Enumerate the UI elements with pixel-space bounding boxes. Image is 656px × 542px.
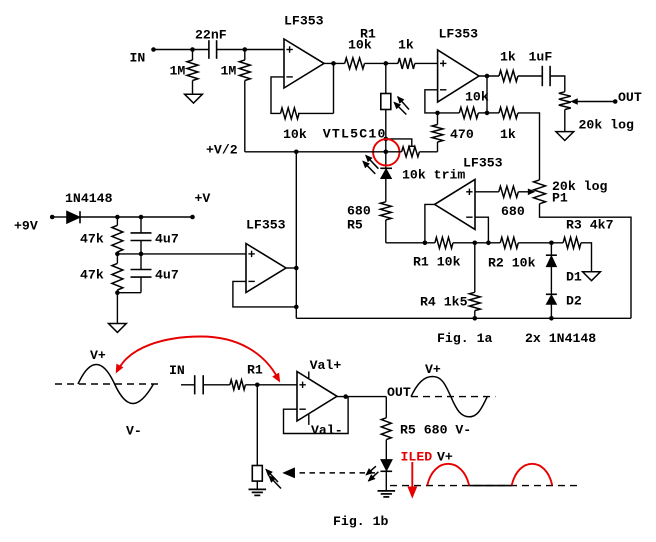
photoresistor VTL5C10 LDR box	[381, 94, 391, 110]
svg-text:P1: P1	[552, 191, 568, 206]
wire U5 feedback	[284, 397, 349, 434]
resistor 10k U2 feedback	[459, 107, 478, 118]
op-amp U5 (fig1b)	[297, 372, 337, 422]
node +9V terminal	[50, 215, 55, 220]
output sine waveform	[411, 377, 487, 417]
wire IN stub to cap	[181, 384, 195, 386]
potentiometer P1 20k log	[534, 180, 546, 204]
svg-text:R4 1k5: R4 1k5	[420, 295, 468, 310]
red ILED arrow	[411, 462, 413, 488]
wire R5 to LED	[385, 440, 387, 460]
wire U2 -in feedback leg	[425, 90, 438, 113]
wire bottom rail	[296, 317, 631, 319]
wire LED to R5	[385, 179, 387, 202]
junction U3 out on chain	[423, 241, 428, 246]
pot wiper arrow to OUT	[578, 101, 616, 103]
svg-text:R1: R1	[247, 363, 263, 378]
wire R3 to ground	[581, 243, 592, 272]
svg-text:R5 680 V-: R5 680 V-	[400, 423, 471, 438]
resistor R4 1k5	[474, 243, 476, 292]
junction U2 fb/1k-2 node	[485, 111, 490, 116]
op-amp U3 LF353 (left-facing)	[435, 179, 475, 229]
svg-text:R1 10k: R1 10k	[413, 255, 461, 270]
wire LDR to LED	[385, 110, 387, 169]
LDR light arrow 1 (fig1b)	[266, 469, 278, 482]
resistor R5 680	[380, 202, 391, 220]
supply pin tick Val+	[308, 372, 310, 379]
svg-text:1k: 1k	[500, 127, 516, 142]
op-amp U2 LF353	[438, 50, 479, 102]
junction D1 tap	[549, 241, 554, 246]
junction +V/2 to buffer	[294, 150, 299, 155]
svg-text:47k: 47k	[80, 232, 104, 247]
svg-text:Fig. 1a: Fig. 1a	[437, 331, 492, 346]
wire node A down to LDR	[385, 63, 387, 93]
supply pin tick Val-	[308, 415, 310, 425]
ground under LDR (bars)	[249, 488, 267, 490]
wire U1 feedback bottom	[298, 112, 334, 114]
ILED baseline (dashed)	[390, 485, 579, 487]
red highlight circle	[373, 139, 399, 165]
diode D2	[546, 293, 557, 295]
node OUT terminal	[613, 99, 618, 104]
trimmer 10k trim body	[402, 147, 420, 157]
svg-text:Fig. 1b: Fig. 1b	[333, 514, 388, 529]
resistor 10k U1 feedback	[281, 108, 300, 119]
svg-text:1M: 1M	[221, 64, 237, 79]
resistor 47k (upper)	[116, 217, 118, 225]
junction divider mid a	[115, 252, 120, 257]
junction D2 bottom	[549, 316, 554, 321]
wire to 10k fb	[438, 112, 460, 114]
wire trim to 470	[419, 151, 437, 153]
ground under LED (bars)	[378, 490, 396, 492]
resistor R3 4k7	[563, 237, 581, 248]
svg-text:LF353: LF353	[439, 27, 479, 42]
wire +V/2 distribution vertical	[295, 152, 297, 318]
wire LDR to ground (fig1b)	[256, 481, 258, 489]
node +V/2 junction (red circled)	[384, 150, 389, 155]
wire to supply ground	[116, 293, 118, 324]
resistor 1M (bias b)	[244, 50, 246, 61]
resistor 1M (input shunt a)	[192, 50, 194, 61]
diode D1	[550, 243, 552, 256]
wire R1 to U5 +in	[245, 384, 297, 386]
svg-text:+V: +V	[195, 191, 211, 206]
red half-wave hump 1	[427, 464, 469, 486]
LDR light arrow 2 (fig1b)	[269, 476, 281, 489]
ground under 20k pot	[556, 132, 574, 141]
svg-text:V+: V+	[90, 348, 106, 363]
resistor R1 10k (chain)	[435, 237, 453, 248]
svg-text:R3 4k7: R3 4k7	[566, 218, 614, 233]
svg-text:10k: 10k	[283, 127, 307, 142]
capacitor 4u7 (lower)	[140, 254, 142, 270]
resistor 1k (U2 out)	[499, 71, 518, 82]
svg-text:680: 680	[501, 204, 525, 219]
svg-text:22nF: 22nF	[195, 28, 227, 43]
svg-text:1N4148: 1N4148	[65, 191, 113, 206]
wire LED to ground	[385, 471, 387, 491]
junction R1/LDR node	[255, 383, 260, 388]
wire cap to R1 (fig1b)	[203, 384, 230, 386]
junction 4u7-a top	[139, 215, 144, 220]
svg-text:IN: IN	[130, 51, 146, 66]
wire U2 out	[479, 75, 499, 77]
wire chain segment b	[453, 242, 500, 244]
wire P1 bottom to right rail	[540, 204, 632, 318]
wire 10k fb to U2 out node	[478, 112, 487, 114]
svg-text:1M: 1M	[170, 64, 186, 79]
wire chain segment a	[386, 242, 435, 244]
op-amp U4 LF353 buffer	[246, 244, 286, 293]
svg-text:D2: D2	[566, 294, 582, 309]
trim wiper tap	[386, 139, 412, 146]
ground under 1M-a	[185, 94, 203, 103]
svg-text:20k log: 20k log	[579, 118, 634, 133]
wire R5 to rectifier chain	[385, 220, 387, 243]
wire U5 out	[337, 396, 386, 398]
resistor 47k (lower)	[116, 254, 118, 264]
wire U4 out	[286, 267, 296, 269]
svg-text:1k: 1k	[500, 50, 516, 65]
svg-text:VTL5C10: VTL5C10	[323, 127, 387, 142]
svg-text:+9V: +9V	[14, 219, 38, 234]
wire C2 to pot top	[551, 76, 565, 92]
svg-text:10k: 10k	[348, 38, 372, 53]
wire U1 feedback left leg	[271, 77, 284, 114]
wire U3 output leg	[425, 204, 435, 242]
input sine V+ waveform	[78, 365, 154, 404]
wire 1k to U2 +in	[415, 62, 438, 64]
LDR light arrow 2	[394, 102, 406, 114]
resistor 1k (to P1)	[499, 107, 518, 118]
junction U2 output	[485, 74, 490, 79]
resistor R2 10k	[500, 237, 518, 248]
junction R4 tap	[473, 241, 478, 246]
svg-text:+V/2: +V/2	[206, 143, 238, 158]
junction at R(1M-a) top	[190, 47, 195, 52]
svg-text:LF353: LF353	[463, 156, 503, 171]
wire fb node to 1k-2	[487, 112, 499, 114]
red half-wave hump 2	[512, 464, 553, 486]
svg-text:OUT: OUT	[618, 90, 642, 105]
junction U3 -in tap	[486, 241, 491, 246]
svg-text:Val-: Val-	[311, 423, 343, 438]
red gain arrow (curved)	[119, 337, 278, 378]
junction U1 output	[331, 61, 336, 66]
junction trim wiper node	[384, 137, 389, 142]
svg-text:R2 10k: R2 10k	[488, 256, 536, 271]
junction divider bottom	[115, 290, 120, 295]
wire U4 feedback	[233, 281, 296, 307]
svg-text:V+: V+	[425, 362, 441, 377]
node IN (input terminal)	[151, 47, 156, 52]
wire 1k to C2	[518, 75, 542, 77]
svg-text:2x 1N4148: 2x 1N4148	[525, 331, 596, 346]
junction U4 output	[294, 266, 299, 271]
op-amp U1 LF353	[284, 39, 324, 88]
svg-text:D1: D1	[566, 270, 582, 285]
wire R1 to node A	[365, 62, 399, 64]
wire pot to ground	[564, 110, 566, 132]
junction at R(1M-b) top	[243, 47, 248, 52]
output sine centerline (dashed)	[411, 396, 495, 398]
svg-text:OUT: OUT	[387, 385, 411, 400]
svg-text:680: 680	[347, 204, 371, 219]
LED emit arrow 1 (fig1b)	[366, 466, 376, 475]
svg-text:LF353: LF353	[284, 14, 324, 29]
wire OUT down to R5	[385, 397, 387, 418]
resistor 1k (to U2 +)	[398, 58, 415, 69]
junction divider mid b	[139, 252, 144, 257]
potentiometer 20k log (output)	[559, 92, 571, 110]
resistor 470 (vertical)	[437, 113, 439, 125]
LDR light arrow 1	[398, 97, 409, 110]
wire U2 out down to fb node	[486, 76, 488, 113]
capacitor 1uF	[541, 66, 543, 86]
svg-text:4u7: 4u7	[155, 232, 179, 247]
wire 1M-b to +V/2 rail	[244, 81, 246, 152]
photoresistor LDR (fig1b)	[252, 466, 262, 482]
LED light arrow 2	[363, 161, 375, 174]
wire U3 -in leg	[475, 217, 488, 243]
resistor R1 (fig1b)	[230, 380, 246, 390]
svg-text:4u7: 4u7	[155, 268, 179, 283]
svg-text:47k: 47k	[80, 268, 104, 283]
ILED zero segment (solid)	[469, 485, 512, 487]
junction 47k-a top	[115, 215, 120, 220]
optical path dashed arrow	[296, 472, 376, 474]
svg-text:10k trim: 10k trim	[402, 168, 465, 183]
svg-text:1k: 1k	[398, 38, 414, 53]
diode 1N4148 (power)	[67, 211, 80, 223]
wire IN to C1	[154, 49, 209, 51]
resistor R5 (fig1b)	[381, 418, 391, 440]
capacitor 22nF	[208, 40, 210, 59]
junction 470 top	[435, 111, 440, 116]
wire divider bottom	[117, 292, 141, 294]
wire chain segment c	[518, 242, 563, 244]
LED of VTL5C10	[380, 167, 392, 169]
ground under R3	[583, 272, 601, 281]
resistor R1 10k	[345, 58, 365, 69]
svg-text:IN: IN	[169, 363, 185, 378]
svg-text:R5: R5	[347, 218, 363, 233]
capacitor 4u7 (upper)	[140, 217, 142, 233]
wire +V rail	[80, 216, 193, 218]
svg-text:1uF: 1uF	[529, 50, 553, 65]
ground under divider	[109, 324, 127, 333]
wire +9V to diode	[52, 216, 66, 218]
resistor 680 (U3 +in)	[499, 186, 519, 197]
node A junction (R1/1k/VTL)	[384, 61, 389, 66]
capacitor (input, fig1b)	[194, 375, 196, 394]
junction U4 fb tap	[294, 305, 299, 310]
wire C1 to U1 +in	[217, 49, 284, 51]
svg-text:470: 470	[450, 127, 474, 142]
svg-text:Val+: Val+	[310, 358, 342, 373]
svg-text:10k: 10k	[465, 90, 489, 105]
wire D1 to D2	[550, 267, 552, 295]
wire +V/2 rail	[245, 151, 402, 153]
wire U3 +in to 680	[475, 191, 499, 193]
node +V terminal	[190, 215, 195, 220]
svg-text:LF353: LF353	[246, 218, 286, 233]
wire U1 out	[324, 62, 345, 64]
junction R4 bottom	[473, 316, 478, 321]
input sine centerline (dashed)	[55, 383, 163, 385]
wire LDR branch (fig1b)	[256, 385, 258, 466]
wire U1 feedback right leg	[333, 63, 335, 113]
junction U5 fb tap	[343, 394, 348, 399]
LED (fig1b)	[381, 460, 392, 471]
svg-text:V+: V+	[437, 450, 453, 465]
wire divider mid rail	[117, 253, 246, 255]
LED emit arrow 2 (fig1b)	[369, 472, 379, 481]
svg-text:V-: V-	[126, 424, 142, 439]
svg-text:ILED: ILED	[401, 450, 433, 465]
wiper arrow into P1	[518, 191, 528, 193]
wire 1k-2 to P1 top	[518, 113, 540, 180]
LED light arrow 1	[366, 155, 379, 168]
